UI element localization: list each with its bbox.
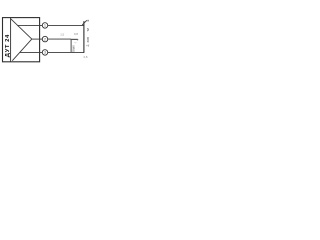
svg-text:Uвых: Uвых xyxy=(72,45,76,53)
wire pin1 internal xyxy=(17,24,42,26)
fuel level sensor box B1 (ДУТ 24) xyxy=(3,18,40,62)
pin 2 number xyxy=(44,37,46,41)
svg-text:1: 1 xyxy=(44,24,46,28)
tick end mark xyxy=(87,20,89,22)
pin 1 number xyxy=(44,24,46,28)
wire 2 merge tick xyxy=(71,39,78,41)
trunk bundle line xyxy=(83,21,85,53)
wire pin1 to trunk xyxy=(48,24,84,26)
rheostat track upper diagonal xyxy=(11,19,32,39)
net label at trunk xyxy=(86,37,90,47)
net label at drop wire xyxy=(72,45,76,53)
net label at trunk upper part xyxy=(86,28,90,32)
wire gauge label 0,8 upper xyxy=(74,32,78,36)
svg-text:ДУТ 24: ДУТ 24 xyxy=(5,34,11,57)
pin 3 circle xyxy=(42,50,48,56)
pin 2 circle xyxy=(42,36,48,42)
wire pin2 horizontal xyxy=(48,38,72,40)
label strip divider xyxy=(10,18,12,62)
svg-text:ти: ти xyxy=(86,28,90,32)
svg-text:0,8: 0,8 xyxy=(74,32,78,36)
svg-text:тр: тр xyxy=(74,42,77,44)
trunk continuation tick xyxy=(82,20,87,25)
wire pin2 vertical drop xyxy=(70,39,72,52)
svg-text:2, зов: 2, зов xyxy=(86,37,90,47)
rheostat track lower diagonal xyxy=(12,39,32,61)
wire gauge label 1,5 xyxy=(60,33,64,37)
pin 3 number xyxy=(44,51,46,55)
pin 1 circle xyxy=(42,23,48,29)
label ДУТ 24 xyxy=(5,34,11,57)
svg-text:3: 3 xyxy=(44,51,46,55)
wire pin3 to trunk xyxy=(48,51,84,53)
svg-text:2: 2 xyxy=(44,37,46,41)
svg-text:1,5: 1,5 xyxy=(60,33,64,37)
small note under tick xyxy=(74,42,77,44)
wire pin3 internal xyxy=(20,51,43,53)
wire gauge label bottom xyxy=(84,55,88,59)
wire pin2 wiper internal xyxy=(32,38,43,40)
svg-text:0,8: 0,8 xyxy=(84,55,88,59)
